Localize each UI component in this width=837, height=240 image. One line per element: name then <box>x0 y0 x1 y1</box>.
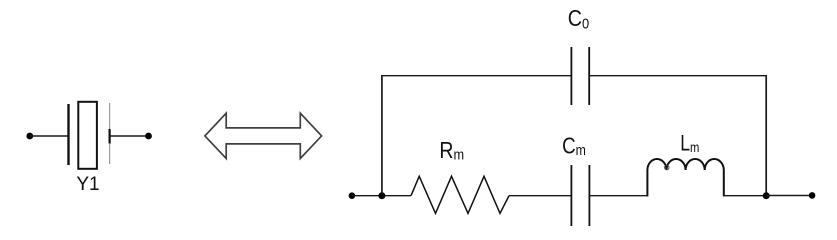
wire: crystal right lead <box>110 135 148 137</box>
crystal left electrode plate <box>67 104 69 165</box>
wire: inductor to right junction <box>724 195 766 197</box>
label Rm <box>439 137 464 163</box>
wire: resistor to Cm <box>509 195 571 197</box>
wire: bottom left lead <box>352 195 411 197</box>
crystal right electrode plate (light) <box>109 103 111 164</box>
capacitor C0 <box>571 47 589 105</box>
inductor Lm <box>647 159 723 196</box>
label Cm <box>562 134 586 159</box>
node: bottom right terminal dot <box>809 192 816 199</box>
crystal Y1 <box>69 102 110 169</box>
wire: bottom right lead <box>766 195 812 197</box>
wire: top left horizontal <box>381 75 571 77</box>
svg-text:Y1: Y1 <box>76 174 99 195</box>
node: bottom left terminal dot <box>349 192 356 199</box>
wire: Cm to inductor <box>589 195 648 197</box>
wire: top right horizontal <box>589 75 767 77</box>
capacitor Cm <box>571 165 589 226</box>
node: crystal left terminal dot <box>26 133 33 140</box>
inductor winding loop detail <box>665 165 669 169</box>
label Lm <box>680 132 699 156</box>
crystal right electrode tick (dark) <box>108 129 110 144</box>
node: crystal right terminal dot <box>145 133 152 140</box>
double-headed equivalence arrow <box>205 113 322 158</box>
wire: crystal left lead <box>30 135 68 137</box>
crystal body rectangle <box>78 102 97 169</box>
node: junction dot left <box>378 192 385 199</box>
wire: left vertical branch <box>381 76 383 196</box>
resistor Rm <box>411 176 509 213</box>
label C0 <box>568 5 590 31</box>
node: junction dot right <box>763 192 770 199</box>
wire: right vertical branch <box>765 76 767 196</box>
